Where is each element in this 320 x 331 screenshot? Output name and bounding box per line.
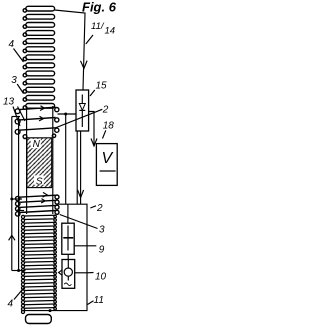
svg-text:N: N [33,139,41,150]
svg-text:S: S [36,177,43,188]
svg-text:4: 4 [8,299,14,310]
svg-text:13: 13 [3,97,15,108]
svg-text:15: 15 [96,81,108,92]
svg-text:3: 3 [11,75,17,86]
svg-text:V: V [102,150,114,167]
svg-text:10: 10 [95,272,107,283]
svg-text:18: 18 [103,121,115,132]
svg-text:4: 4 [9,39,15,50]
svg-text:14: 14 [105,26,116,37]
svg-text:3: 3 [99,225,105,236]
svg-text:2: 2 [96,203,103,214]
svg-text:Fig. 6: Fig. 6 [82,0,117,15]
svg-text:11/: 11/ [91,21,105,32]
svg-text:9: 9 [99,245,105,256]
svg-text:11: 11 [94,295,104,306]
svg-text:2: 2 [102,104,109,115]
